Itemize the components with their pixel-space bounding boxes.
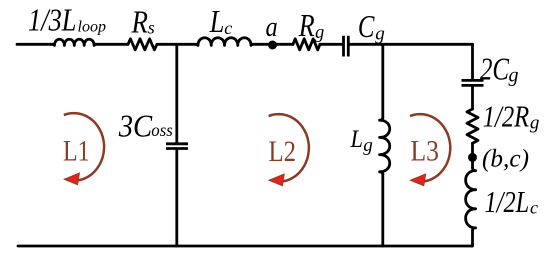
svg-text:L: L xyxy=(350,124,363,153)
svg-text:g: g xyxy=(509,65,519,87)
wire Lg branch lower xyxy=(381,174,384,246)
svg-text:c: c xyxy=(530,197,538,217)
wire right branch from corner to 2Cg xyxy=(471,44,474,79)
svg-text:L3: L3 xyxy=(411,135,440,168)
node (b,c) xyxy=(468,153,477,162)
wire Rs to Lc xyxy=(157,43,197,46)
svg-text:loop: loop xyxy=(78,19,107,36)
svg-text:L1: L1 xyxy=(63,135,90,168)
resistor Rg xyxy=(293,39,320,50)
wire Cg to top-right corner xyxy=(350,43,473,46)
wire Lg branch upper xyxy=(381,44,384,117)
svg-text:s: s xyxy=(148,18,155,38)
svg-text:g: g xyxy=(530,113,540,134)
wire 2Cg to half Rg xyxy=(471,87,474,109)
svg-text:R: R xyxy=(131,4,148,39)
svg-text:g: g xyxy=(315,23,324,43)
svg-text:3C: 3C xyxy=(118,109,153,144)
svg-text:1/2L: 1/2L xyxy=(485,184,530,219)
loop arrow L1 xyxy=(64,113,104,185)
loop arrow L3 xyxy=(410,114,450,186)
capacitor Cg plates xyxy=(344,36,349,57)
capacitor 3Coss plates xyxy=(166,144,188,149)
capacitor 2Cg plates xyxy=(462,80,484,85)
wire Lloop to Rs xyxy=(96,43,129,46)
wire 3Coss branch lower xyxy=(175,151,178,246)
inductor 1/2Lc xyxy=(466,168,476,230)
wire top-left xyxy=(17,43,53,46)
inductor 1/3Lloop xyxy=(53,39,96,45)
svg-text:C: C xyxy=(358,9,375,44)
wire 3Coss branch upper xyxy=(175,44,178,142)
svg-text:L2: L2 xyxy=(269,135,297,168)
node a xyxy=(268,41,277,50)
wire Lc to Rg through node a xyxy=(253,43,294,46)
svg-text:1/3L: 1/3L xyxy=(28,3,77,38)
svg-text:c: c xyxy=(224,18,232,38)
svg-text:R: R xyxy=(298,8,315,43)
svg-text:2C: 2C xyxy=(480,51,510,87)
svg-text:g: g xyxy=(375,24,385,45)
wire halfRg to node bc xyxy=(471,143,474,153)
wire half Lc to bottom-right corner xyxy=(471,230,473,246)
resistor Rs xyxy=(128,39,157,50)
svg-text:g: g xyxy=(363,135,373,156)
bottom rail xyxy=(18,245,473,248)
svg-text:a: a xyxy=(266,11,278,43)
loop arrow L2 xyxy=(269,114,309,186)
svg-text:1/2R: 1/2R xyxy=(483,99,530,134)
resistor 1/2Rg xyxy=(467,109,478,143)
svg-text:(b,c): (b,c) xyxy=(482,145,529,172)
svg-text:oss: oss xyxy=(151,120,173,140)
wire Rg to Cg xyxy=(320,43,342,46)
inductor Lc xyxy=(197,38,253,46)
inductor Lg xyxy=(380,118,390,175)
wire node bc to half Lc xyxy=(471,162,474,168)
svg-text:L: L xyxy=(209,4,224,39)
